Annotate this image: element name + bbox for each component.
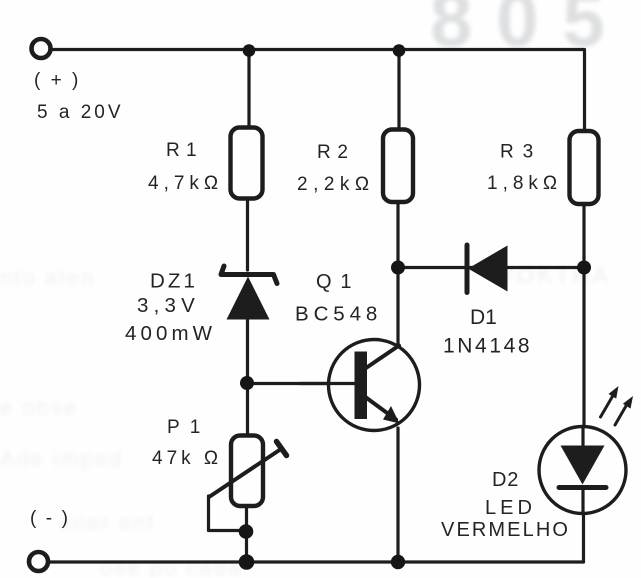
svg-text:ose po cada: ose po cada	[100, 555, 242, 578]
svg-text:Ade imped: Ade imped	[0, 446, 123, 471]
svg-text:2,2kΩ: 2,2kΩ	[297, 174, 375, 195]
svg-text:R 3: R 3	[500, 142, 535, 163]
svg-text:e obse: e obse	[0, 395, 78, 420]
svg-text:nto aten: nto aten	[0, 265, 96, 290]
svg-text:R 2: R 2	[317, 142, 349, 163]
svg-text:( + ): ( + )	[34, 70, 81, 91]
svg-text:1N4148: 1N4148	[443, 335, 532, 358]
svg-text:47k Ω: 47k Ω	[152, 448, 222, 469]
svg-text:( - ): ( - )	[30, 508, 70, 529]
svg-text:P 1: P 1	[167, 417, 203, 438]
svg-text:DZ1: DZ1	[150, 270, 198, 293]
svg-text:4,7kΩ: 4,7kΩ	[148, 173, 223, 194]
svg-text:R 1: R 1	[166, 140, 197, 161]
svg-text:805: 805	[430, 0, 629, 63]
svg-text:1,8kΩ: 1,8kΩ	[487, 173, 562, 194]
svg-text:3,3V: 3,3V	[137, 294, 200, 317]
svg-text:D2: D2	[492, 469, 519, 491]
svg-text:BC548: BC548	[295, 303, 382, 326]
svg-text:400mW: 400mW	[125, 322, 216, 345]
svg-text:sner ent: sner ent	[60, 510, 156, 535]
svg-text:D1: D1	[470, 306, 497, 329]
svg-text:Q 1: Q 1	[316, 271, 353, 293]
svg-text:VERMELHO: VERMELHO	[441, 519, 570, 541]
svg-text:LED: LED	[485, 497, 536, 519]
svg-text:5 a 20V: 5 a 20V	[37, 102, 124, 123]
